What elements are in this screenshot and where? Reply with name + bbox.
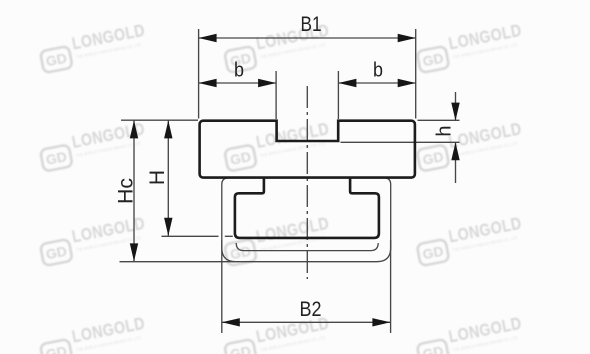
svg-text:h: h bbox=[434, 125, 456, 136]
svg-text:B1: B1 bbox=[301, 13, 322, 36]
svg-text:B2: B2 bbox=[300, 298, 322, 321]
svg-text:b: b bbox=[373, 60, 383, 82]
svg-text:H: H bbox=[146, 170, 169, 185]
svg-text:b: b bbox=[234, 60, 244, 82]
svg-text:Hc: Hc bbox=[115, 178, 138, 204]
